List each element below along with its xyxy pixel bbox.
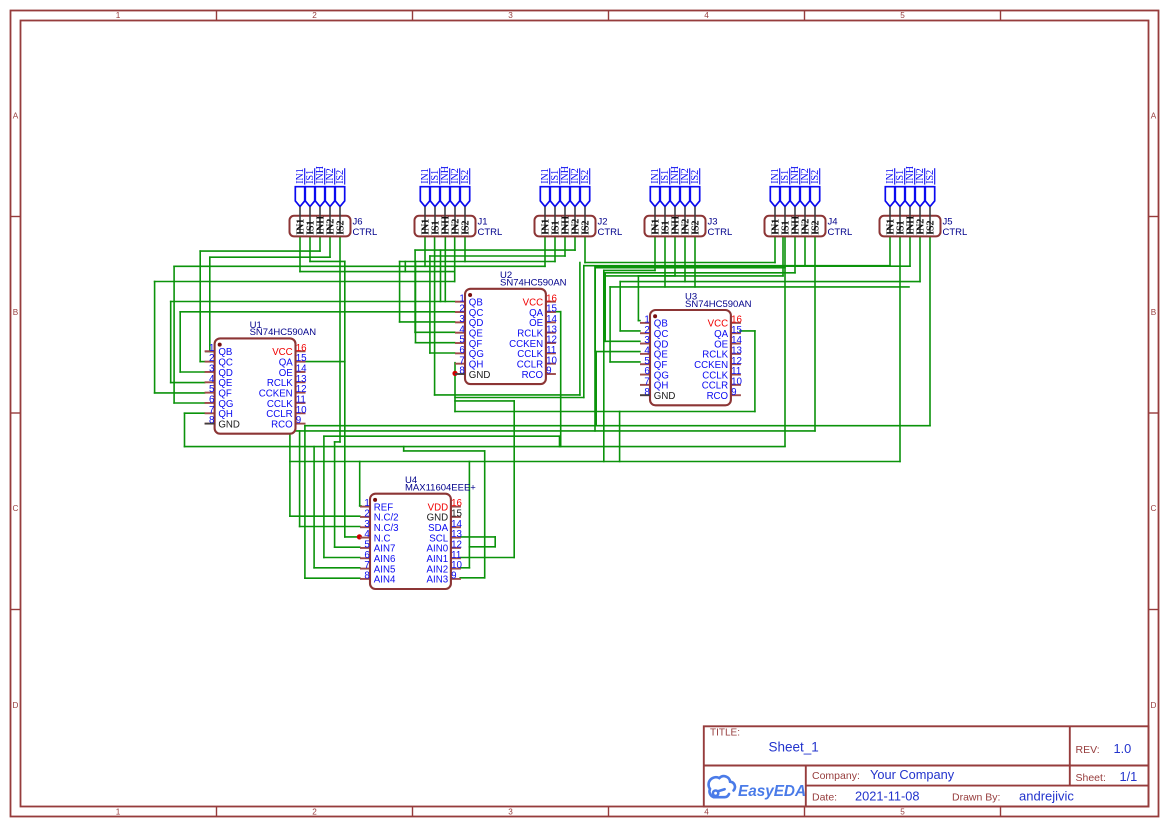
- svg-text:CTRL: CTRL: [598, 227, 623, 238]
- svg-text:B: B: [1151, 308, 1157, 317]
- svg-text:Your Company: Your Company: [870, 767, 955, 782]
- svg-text:IS2: IS2: [336, 220, 347, 234]
- svg-text:TITLE:: TITLE:: [710, 727, 740, 738]
- svg-text:IS2: IS2: [691, 220, 702, 234]
- svg-text:SN74HC590AN: SN74HC590AN: [685, 299, 752, 310]
- svg-text:8: 8: [459, 366, 465, 377]
- svg-text:A: A: [13, 112, 19, 121]
- svg-text:SN74HC590AN: SN74HC590AN: [500, 278, 567, 289]
- svg-text:Company:: Company:: [812, 770, 860, 782]
- svg-text:andrejivic: andrejivic: [1019, 789, 1074, 804]
- svg-text:1: 1: [116, 808, 121, 817]
- svg-text:9: 9: [451, 571, 456, 582]
- svg-text:RCO: RCO: [522, 370, 544, 381]
- svg-text:1: 1: [116, 11, 121, 20]
- svg-text:8: 8: [644, 387, 650, 398]
- svg-text:3: 3: [508, 11, 513, 20]
- svg-text:8: 8: [209, 415, 215, 426]
- svg-text:1/1: 1/1: [1120, 769, 1138, 784]
- svg-text:9: 9: [731, 387, 736, 398]
- svg-text:AIN3: AIN3: [427, 575, 449, 586]
- svg-text:3: 3: [508, 808, 513, 817]
- svg-text:1.0: 1.0: [1114, 741, 1132, 756]
- svg-text:EasyEDA: EasyEDA: [738, 783, 806, 800]
- svg-text:GND: GND: [654, 391, 676, 402]
- svg-text:IS2: IS2: [811, 220, 822, 234]
- svg-text:Drawn By:: Drawn By:: [952, 792, 1000, 804]
- svg-text:MAX11604EEE+: MAX11604EEE+: [405, 483, 476, 494]
- svg-text:5: 5: [900, 808, 905, 817]
- svg-text:IS2: IS2: [926, 220, 937, 234]
- svg-text:2021-11-08: 2021-11-08: [855, 789, 920, 804]
- svg-text:RCO: RCO: [271, 419, 293, 430]
- svg-text:CTRL: CTRL: [943, 227, 968, 238]
- svg-text:REV:: REV:: [1076, 744, 1100, 756]
- svg-text:RCO: RCO: [707, 391, 729, 402]
- svg-text:CTRL: CTRL: [478, 227, 503, 238]
- svg-text:CTRL: CTRL: [828, 227, 853, 238]
- svg-text:CTRL: CTRL: [353, 227, 378, 238]
- svg-text:GND: GND: [218, 419, 240, 430]
- svg-text:2: 2: [312, 808, 317, 817]
- svg-text:8: 8: [364, 571, 370, 582]
- svg-text:Date:: Date:: [812, 792, 837, 804]
- svg-text:A: A: [1151, 112, 1157, 121]
- svg-text:2: 2: [312, 11, 317, 20]
- svg-text:SN74HC590AN: SN74HC590AN: [250, 327, 317, 338]
- svg-text:D: D: [1151, 701, 1157, 710]
- svg-text:IS2: IS2: [581, 220, 592, 234]
- svg-text:4: 4: [704, 11, 709, 20]
- svg-text:GND: GND: [469, 370, 491, 381]
- svg-text:C: C: [1151, 504, 1157, 513]
- svg-text:IS2: IS2: [461, 220, 472, 234]
- svg-text:Sheet:: Sheet:: [1076, 772, 1106, 784]
- svg-text:CTRL: CTRL: [708, 227, 733, 238]
- svg-text:D: D: [13, 701, 19, 710]
- svg-text:9: 9: [296, 415, 301, 426]
- svg-text:C: C: [13, 504, 19, 513]
- svg-text:Sheet_1: Sheet_1: [769, 740, 819, 755]
- svg-text:B: B: [13, 308, 19, 317]
- svg-text:AIN4: AIN4: [374, 575, 396, 586]
- svg-text:9: 9: [546, 366, 551, 377]
- svg-text:4: 4: [704, 808, 709, 817]
- svg-text:5: 5: [900, 11, 905, 20]
